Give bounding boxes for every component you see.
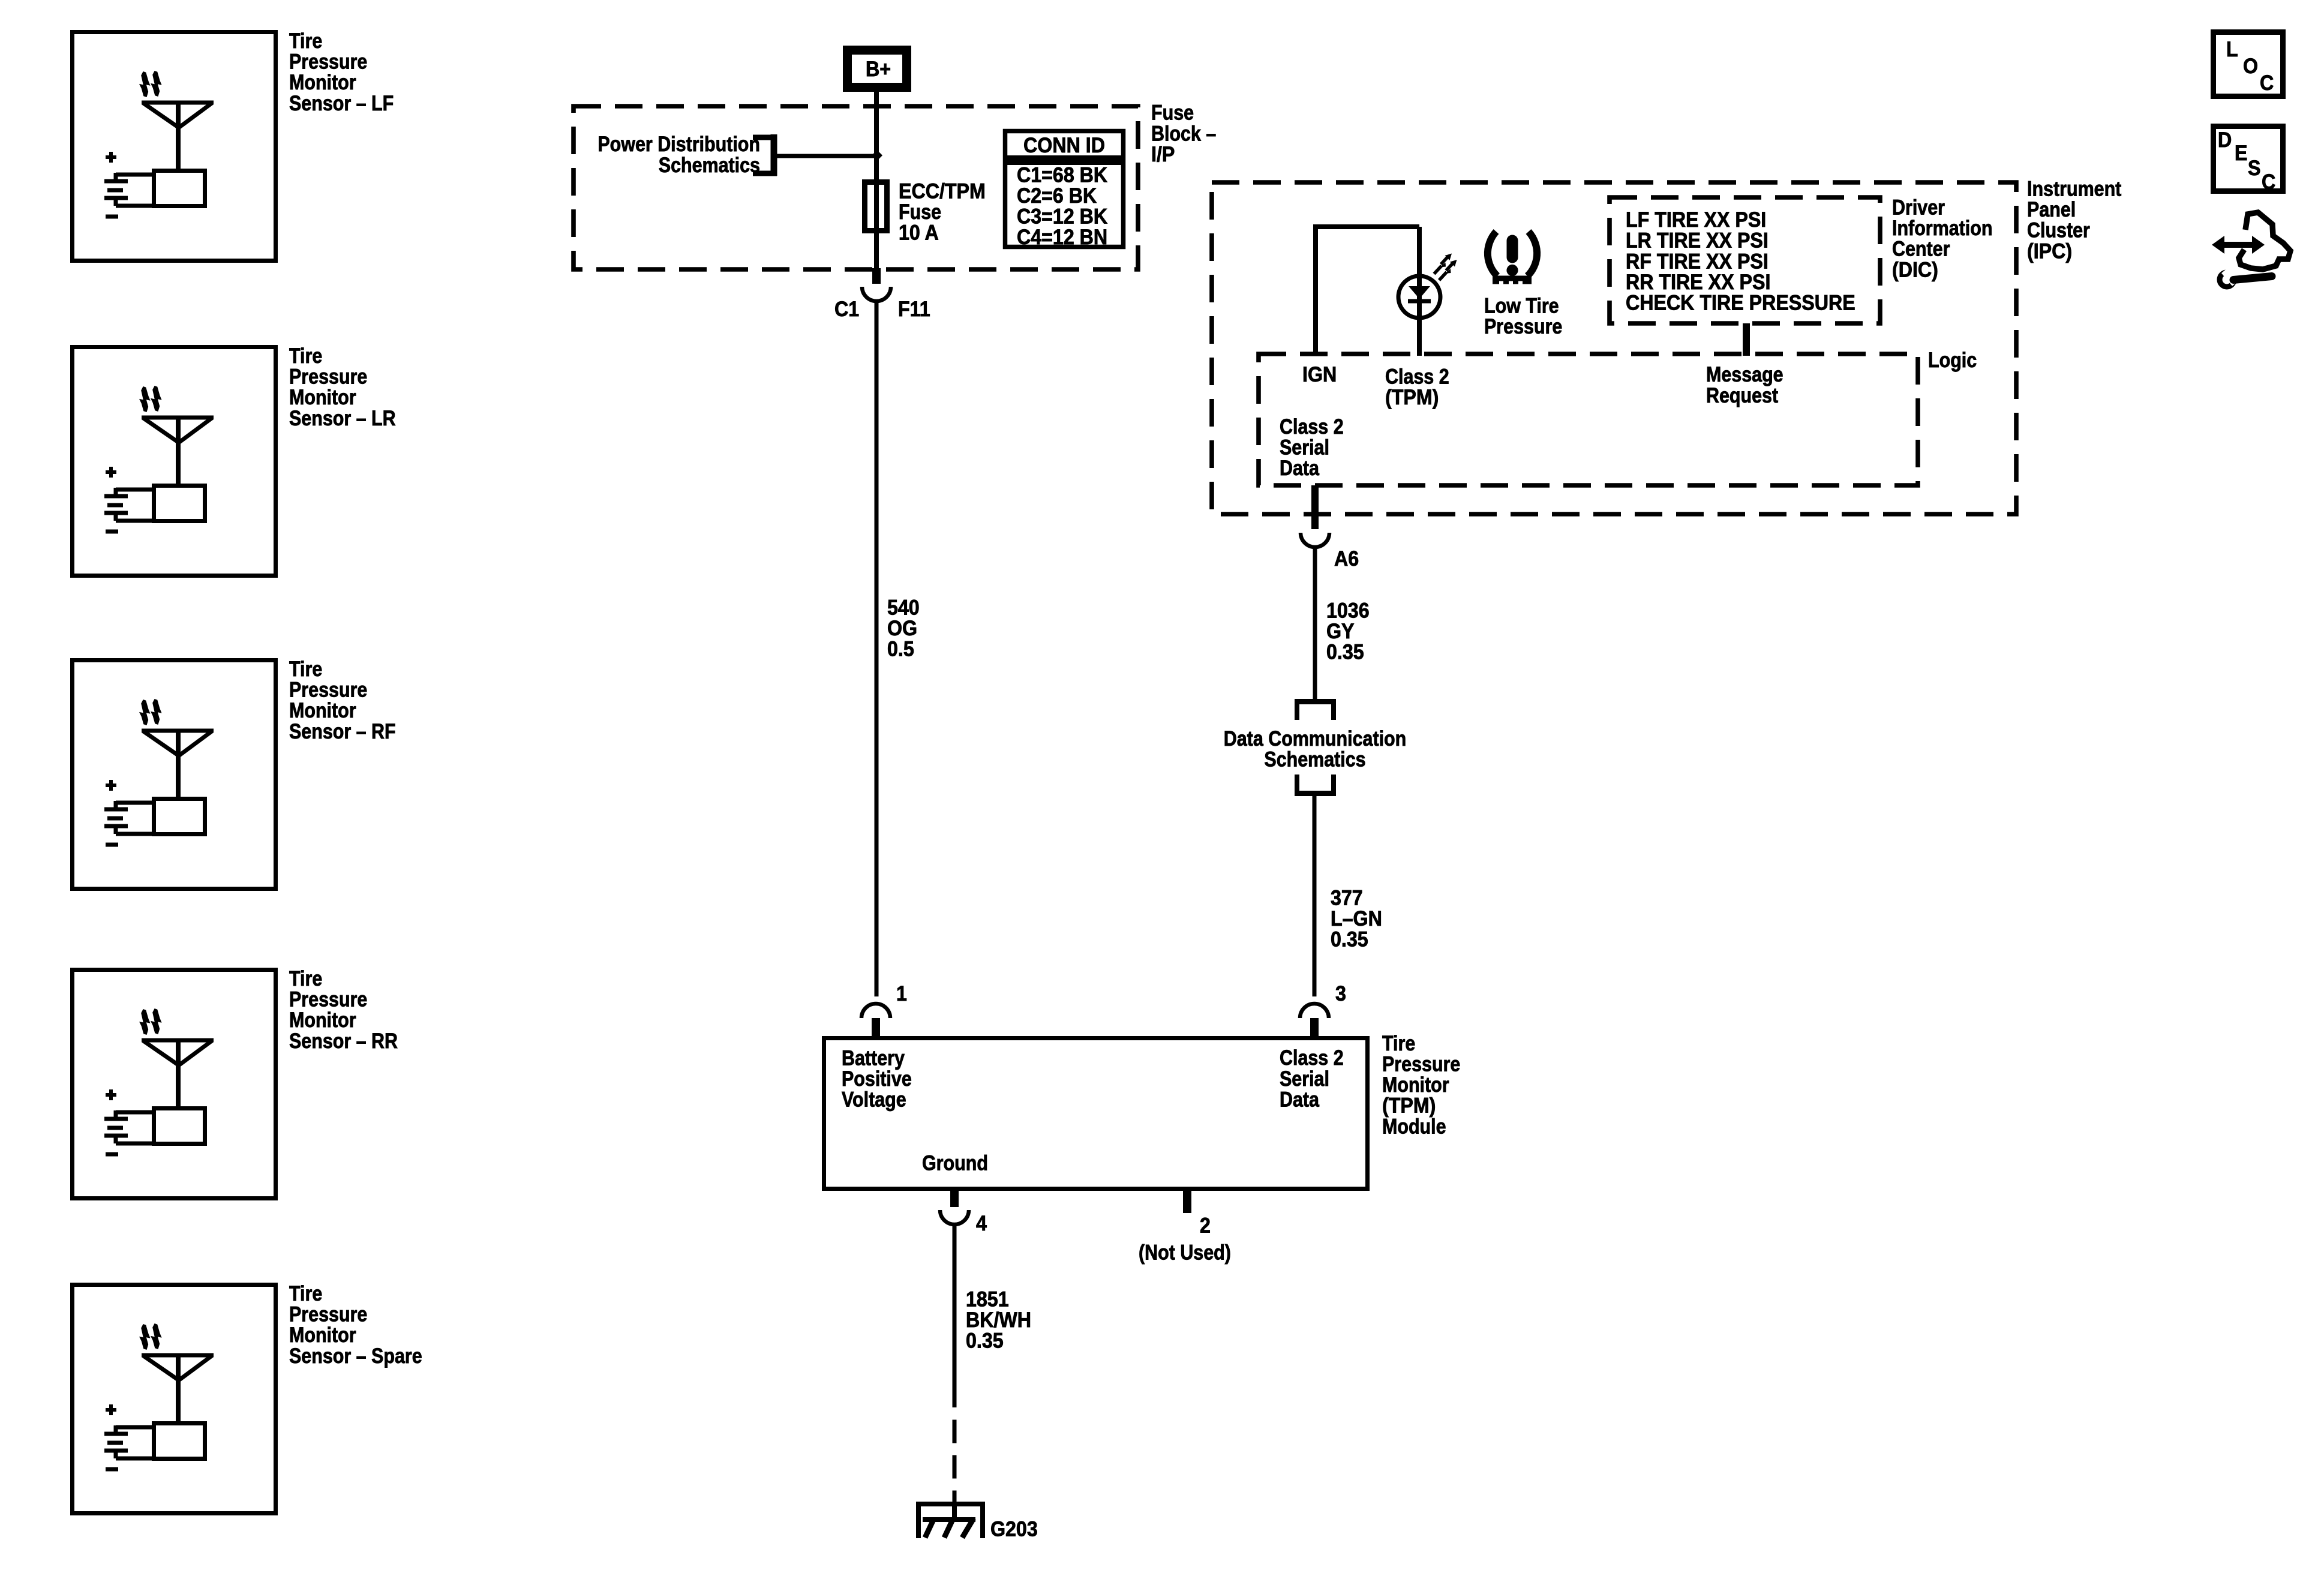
svg-text:Class 2: Class 2: [1280, 1046, 1344, 1069]
svg-text:L: L: [2226, 38, 2238, 62]
TPM module pin 4 connector: [940, 1191, 987, 1235]
sensor Spare antenna: [142, 1355, 214, 1423]
svg-text:3: 3: [1335, 983, 1346, 1006]
svg-text:Sensor – RF: Sensor – RF: [289, 719, 396, 743]
svg-text:LR TIRE XX PSI: LR TIRE XX PSI: [1626, 230, 1768, 253]
sensor LR battery: [104, 467, 154, 532]
svg-text:G203: G203: [990, 1518, 1038, 1541]
svg-text:Sensor – LR: Sensor – LR: [289, 406, 396, 430]
sensor RF antenna: [142, 731, 214, 798]
TPM module pin 3 connector: [1300, 983, 1346, 1036]
wire 540 OG 0.5: [876, 301, 920, 996]
svg-text:Tire: Tire: [289, 1281, 322, 1305]
svg-text:Positive: Positive: [842, 1067, 912, 1090]
svg-text:Monitor: Monitor: [289, 70, 356, 94]
svg-text:C1: C1: [834, 298, 859, 322]
svg-text:(Not Used): (Not Used): [1139, 1240, 1231, 1263]
svg-text:Pressure: Pressure: [289, 365, 367, 388]
svg-text:Center: Center: [1892, 237, 1950, 260]
DIC dashed box: [1610, 197, 1880, 323]
sensor RR label: [289, 966, 398, 1052]
svg-text:1851: 1851: [966, 1288, 1009, 1311]
svg-text:Ground: Ground: [922, 1151, 988, 1174]
svg-text:Monitor: Monitor: [289, 1323, 356, 1346]
svg-text:CONN ID: CONN ID: [1023, 134, 1105, 158]
svg-text:Fuse: Fuse: [1151, 101, 1194, 124]
svg-text:377: 377: [1331, 887, 1363, 910]
connector A6: [1301, 533, 1359, 571]
svg-text:IGN: IGN: [1302, 364, 1337, 387]
svg-text:(DIC): (DIC): [1892, 259, 1938, 282]
svg-text:(TPM): (TPM): [1385, 386, 1439, 410]
svg-text:Monitor: Monitor: [289, 698, 356, 722]
svg-text:RR TIRE XX PSI: RR TIRE XX PSI: [1626, 271, 1770, 295]
svg-text:Low Tire: Low Tire: [1484, 293, 1559, 317]
svg-text:Pressure: Pressure: [1484, 314, 1562, 338]
svg-text:Pressure: Pressure: [289, 987, 367, 1011]
svg-text:Voltage: Voltage: [842, 1088, 906, 1111]
sensor LR label: [289, 344, 396, 430]
svg-text:Schematics: Schematics: [1264, 747, 1365, 770]
junction node: [872, 150, 882, 161]
fuse label: [899, 180, 986, 245]
svg-text:RF TIRE XX PSI: RF TIRE XX PSI: [1626, 250, 1768, 274]
wire 1036 GY 0.35: [1315, 547, 1370, 699]
svg-text:Sensor – Spare: Sensor – Spare: [289, 1344, 422, 1367]
svg-text:Monitor: Monitor: [1382, 1073, 1449, 1096]
power distribution reference: [597, 132, 777, 176]
B+ battery positive terminal box: [848, 50, 907, 88]
svg-text:Instrument: Instrument: [2027, 176, 2121, 200]
svg-text:C1=68 BK: C1=68 BK: [1017, 164, 1107, 187]
svg-text:OG: OG: [887, 617, 917, 641]
svg-text:Battery: Battery: [842, 1046, 905, 1069]
svg-text:Pressure: Pressure: [289, 678, 367, 701]
svg-text:Pressure: Pressure: [1382, 1052, 1460, 1075]
tire pressure monitor sensor - Spare box: [73, 1285, 276, 1514]
svg-text:Panel: Panel: [2027, 197, 2076, 221]
svg-text:S: S: [2248, 157, 2260, 181]
svg-text:Message: Message: [1706, 362, 1783, 386]
sensor LF transmitter case: [154, 171, 205, 206]
svg-text:1036: 1036: [1326, 599, 1370, 623]
svg-text:(IPC): (IPC): [2027, 240, 2072, 263]
sensor LR transmitter case: [154, 486, 205, 521]
TPM module pin 1 connector: [861, 983, 907, 1036]
svg-text:Sensor – LF: Sensor – LF: [289, 91, 394, 115]
class 2 TPM label: [1385, 364, 1449, 409]
wire 1851 BK/WH 0.35: [954, 1224, 1031, 1502]
svg-text:2: 2: [1200, 1214, 1211, 1238]
svg-text:D: D: [2218, 129, 2232, 152]
svg-text:Logic: Logic: [1928, 348, 1977, 371]
sensor RR transmitter case: [154, 1109, 205, 1144]
instrument panel cluster IPC dashed box: [1212, 182, 2016, 514]
svg-text:Tire: Tire: [289, 657, 322, 680]
sensor Spare battery: [104, 1404, 154, 1469]
svg-text:Tire: Tire: [1382, 1031, 1415, 1055]
svg-text:10 A: 10 A: [899, 221, 939, 245]
svg-text:BK/WH: BK/WH: [966, 1309, 1031, 1332]
TPM module label: [1382, 1031, 1460, 1138]
svg-text:1: 1: [896, 983, 907, 1006]
svg-text:Pressure: Pressure: [289, 1302, 367, 1326]
wire 377 L-GN 0.35: [1314, 796, 1382, 996]
schematic navigation icon: [2212, 212, 2290, 287]
svg-text:CHECK TIRE PRESSURE: CHECK TIRE PRESSURE: [1626, 292, 1855, 315]
message request wire: [1706, 323, 1783, 407]
LED emission arrows: [1434, 254, 1457, 281]
low tire pressure label: [1484, 293, 1562, 338]
low tire pressure telltale icon: [1488, 232, 1537, 284]
ground G203: [916, 1502, 1038, 1541]
svg-text:I/P: I/P: [1151, 143, 1175, 167]
tire pressure monitor sensor - RF box: [73, 661, 276, 889]
svg-text:C3=12 BK: C3=12 BK: [1017, 205, 1107, 229]
LOC icon box: [2214, 32, 2283, 97]
svg-text:L–GN: L–GN: [1331, 908, 1382, 931]
svg-text:C4=12 BN: C4=12 BN: [1017, 226, 1107, 250]
sensor RF battery: [104, 780, 154, 845]
IGN wire: [1302, 227, 1419, 386]
class 2 serial data stub: [1280, 415, 1344, 529]
svg-text:A6: A6: [1334, 548, 1359, 571]
sensor Spare radio waves: [139, 1323, 162, 1350]
svg-text:Module: Module: [1382, 1114, 1446, 1137]
svg-text:Class 2: Class 2: [1280, 415, 1344, 438]
svg-text:Pressure: Pressure: [289, 50, 367, 73]
sensor RR radio waves: [139, 1008, 162, 1035]
IPC label: [2027, 176, 2121, 263]
svg-text:Fuse: Fuse: [899, 200, 941, 223]
svg-text:C: C: [2262, 171, 2275, 194]
sensor RR battery: [104, 1089, 154, 1154]
fuse block label: [1151, 101, 1216, 167]
svg-text:0.5: 0.5: [887, 638, 914, 662]
svg-text:Request: Request: [1706, 383, 1778, 407]
data communication schematics reference: [1224, 702, 1406, 794]
svg-text:Schematics: Schematics: [659, 153, 760, 176]
logic dashed box: [1259, 354, 1918, 485]
svg-text:E: E: [2235, 142, 2247, 166]
svg-text:LF TIRE XX PSI: LF TIRE XX PSI: [1626, 209, 1766, 232]
svg-text:Monitor: Monitor: [289, 1008, 356, 1031]
sensor LF label: [289, 29, 394, 115]
svg-text:0.35: 0.35: [1326, 641, 1364, 665]
svg-text:Data: Data: [1280, 456, 1320, 479]
DESC icon box: [2214, 127, 2283, 194]
TPM module pin 2 not used: [1139, 1191, 1231, 1264]
svg-text:Information: Information: [1892, 216, 1992, 239]
svg-text:F11: F11: [898, 298, 930, 322]
sensor Spare transmitter case: [154, 1424, 205, 1459]
svg-text:0.35: 0.35: [1331, 929, 1368, 952]
telltale LED indicator: [1398, 227, 1440, 356]
svg-text:Block –: Block –: [1151, 121, 1216, 145]
svg-text:O: O: [2243, 55, 2258, 79]
svg-text:Driver: Driver: [1892, 195, 1945, 218]
tire pressure monitor sensor - RR box: [73, 970, 276, 1199]
svg-text:0.35: 0.35: [966, 1330, 1004, 1353]
sensor Spare label: [289, 1281, 422, 1367]
sensor RF radio waves: [139, 699, 162, 725]
svg-text:Tire: Tire: [289, 344, 322, 367]
svg-text:C: C: [2260, 72, 2274, 95]
fuse ECC/TPM 10A: [865, 182, 887, 231]
sensor RF transmitter case: [154, 799, 205, 834]
svg-text:B+: B+: [866, 58, 891, 82]
sensor LF antenna: [142, 103, 214, 170]
svg-text:Serial: Serial: [1280, 435, 1329, 458]
svg-text:Sensor – RR: Sensor – RR: [289, 1029, 398, 1052]
svg-text:Power Distribution: Power Distribution: [597, 132, 760, 155]
svg-text:540: 540: [887, 596, 920, 620]
svg-text:Tire: Tire: [289, 966, 322, 990]
logic label: [1928, 348, 1977, 371]
tire pressure monitor sensor - LF box: [73, 32, 276, 261]
main power wire from B+: [874, 92, 879, 268]
svg-text:GY: GY: [1326, 620, 1354, 644]
svg-text:Monitor: Monitor: [289, 385, 356, 409]
svg-text:Cluster: Cluster: [2027, 218, 2090, 242]
tire pressure monitor sensor - LR box: [73, 347, 276, 576]
sensor LR radio waves: [139, 386, 162, 412]
sensor LR antenna: [142, 418, 214, 485]
svg-text:Tire: Tire: [289, 29, 322, 52]
svg-text:Serial: Serial: [1280, 1067, 1329, 1090]
sensor RF label: [289, 657, 396, 743]
svg-text:Data: Data: [1280, 1087, 1320, 1110]
svg-text:Class 2: Class 2: [1385, 364, 1449, 388]
svg-text:C2=6 BK: C2=6 BK: [1017, 185, 1097, 208]
sensor RR antenna: [142, 1040, 214, 1108]
DIC label: [1892, 195, 1992, 281]
sensor LF battery: [104, 152, 154, 217]
sensor LF radio waves: [139, 71, 162, 97]
tire pressure monitor TPM module box: [824, 1038, 1368, 1189]
CONN ID table: [1003, 131, 1125, 250]
connector C1 F11: [834, 268, 930, 321]
wire to power distribution: [777, 154, 876, 158]
fuse block I/P dashed box: [574, 106, 1138, 269]
svg-text:4: 4: [976, 1212, 987, 1236]
